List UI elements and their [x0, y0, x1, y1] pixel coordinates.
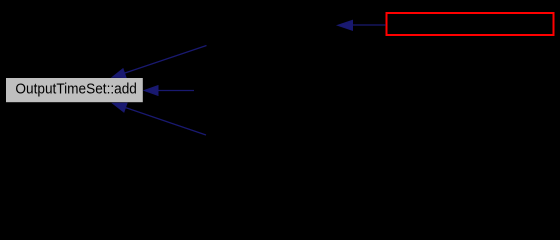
edge a: top caller -> OutputTimeSet::add: [112, 46, 206, 78]
edge c: bottom caller -> OutputTimeSet::add: [113, 103, 206, 135]
node OutputTimeSet::add: [6, 78, 143, 102]
edge b: middle caller -> OutputTimeSet::add: [144, 86, 194, 96]
svg-text:OutputTimeSet::add: OutputTimeSet::add: [15, 81, 137, 97]
edge d: red node -> top caller: [338, 20, 386, 30]
node (red, empty): [387, 13, 554, 35]
